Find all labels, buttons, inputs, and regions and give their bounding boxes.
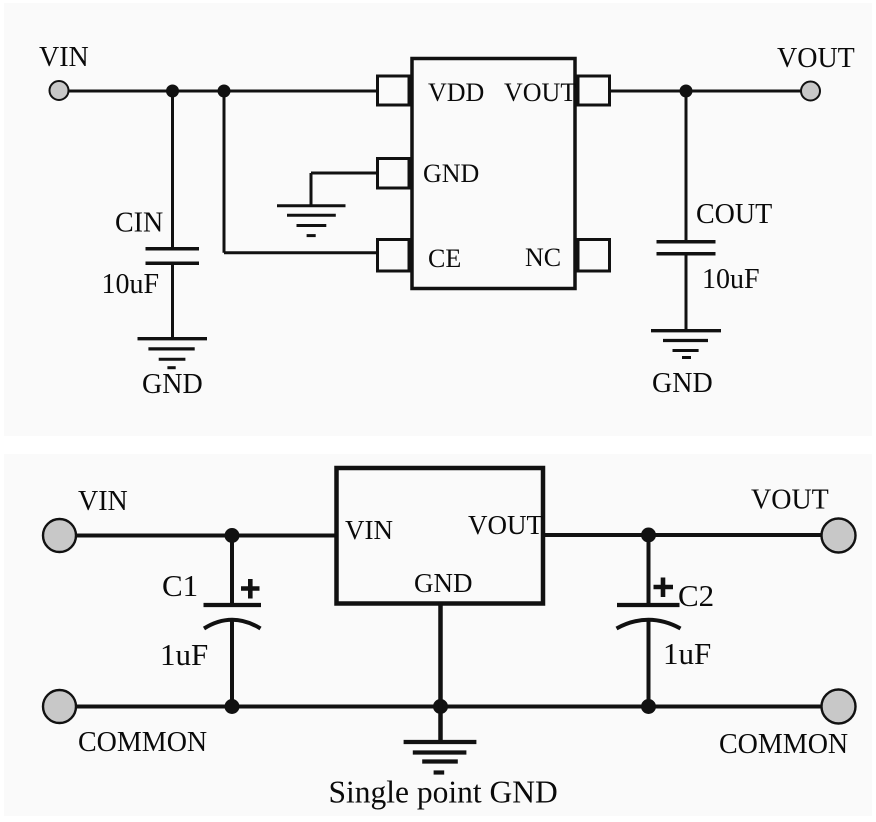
- wire COUT to ground: [685, 255, 688, 331]
- svg-text:NC: NC: [525, 243, 561, 272]
- svg-text:VOUT: VOUT: [777, 43, 855, 74]
- junction at C1: [225, 528, 240, 543]
- junction C1/common: [225, 699, 240, 714]
- junction at CE branch: [218, 85, 231, 98]
- wire VOUT pin to terminal: [610, 90, 802, 93]
- svg-text:GND: GND: [414, 568, 473, 598]
- svg-text:COMMON: COMMON: [78, 727, 207, 758]
- ground (IC GND pin): [277, 206, 346, 236]
- svg-text:GND: GND: [652, 368, 713, 399]
- svg-text:VOUT: VOUT: [504, 78, 576, 107]
- svg-text:VIN: VIN: [78, 486, 128, 517]
- capacitor C2 (polarized): [617, 605, 681, 629]
- capacitor C1 (polarized): [204, 605, 262, 629]
- svg-text:CE: CE: [428, 244, 461, 273]
- pin box GND: [378, 159, 410, 189]
- IC U1 body: [412, 59, 575, 289]
- capacitor COUT: [657, 242, 716, 254]
- junction GND/common: [433, 699, 448, 714]
- wire COMMON rail: [76, 705, 823, 709]
- terminal VOUT (bottom): [822, 519, 856, 553]
- ground (single point): [404, 742, 477, 773]
- ground (below COUT): [651, 331, 721, 358]
- polarity plus (C1): [241, 579, 260, 599]
- wire to COUT: [685, 91, 688, 241]
- wire VIN to VDD pin: [69, 90, 378, 93]
- pin box VOUT: [578, 76, 610, 105]
- svg-text:VOUT: VOUT: [751, 485, 829, 516]
- pin box VDD: [378, 76, 410, 105]
- wire C2 to common: [647, 618, 651, 707]
- wire VIN to regulator: [76, 534, 336, 538]
- pin box NC: [578, 240, 610, 272]
- wire to C2: [647, 535, 651, 605]
- terminal VIN (top): [50, 81, 69, 100]
- wire GND pin to ground: [311, 173, 377, 206]
- svg-text:1uF: 1uF: [160, 637, 208, 672]
- svg-text:VOUT: VOUT: [468, 510, 543, 540]
- svg-text:10uF: 10uF: [702, 264, 760, 295]
- svg-text:COMMON: COMMON: [719, 729, 848, 760]
- svg-text:GND: GND: [423, 159, 479, 188]
- svg-text:1uF: 1uF: [663, 636, 711, 671]
- svg-text:GND: GND: [142, 369, 203, 400]
- wire CIN to ground: [171, 265, 174, 339]
- svg-text:VDD: VDD: [428, 78, 484, 107]
- svg-text:C1: C1: [162, 568, 198, 603]
- capacitor CIN: [146, 249, 200, 264]
- pin box CE: [378, 240, 410, 272]
- svg-text:C2: C2: [678, 578, 714, 613]
- wire CE branch vertical: [223, 91, 226, 253]
- junction at COUT: [680, 85, 693, 98]
- wire U2 GND to single point ground: [438, 603, 443, 742]
- wire CE branch horizontal: [224, 251, 377, 254]
- terminal VOUT (top): [801, 82, 820, 101]
- wire VOUT to terminal (bottom): [543, 533, 823, 537]
- regulator U2 body: [337, 468, 544, 604]
- svg-text:10uF: 10uF: [102, 269, 160, 300]
- ground (below CIN): [138, 339, 208, 368]
- svg-text:Single point GND: Single point GND: [329, 775, 558, 810]
- wire to C1: [230, 536, 234, 606]
- junction at CIN: [166, 85, 179, 98]
- terminal VIN (bottom): [43, 519, 76, 552]
- svg-text:COUT: COUT: [696, 199, 772, 230]
- wire C1 to common: [230, 618, 234, 707]
- junction C2/common: [641, 699, 656, 714]
- wire to CIN: [171, 91, 174, 248]
- svg-text:CIN: CIN: [115, 208, 163, 239]
- terminal COMMON right: [822, 690, 856, 724]
- terminal COMMON left: [43, 690, 76, 723]
- svg-text:VIN: VIN: [345, 515, 393, 545]
- svg-text:VIN: VIN: [39, 42, 89, 73]
- junction at C2: [641, 528, 656, 543]
- polarity plus (C2): [654, 578, 674, 598]
